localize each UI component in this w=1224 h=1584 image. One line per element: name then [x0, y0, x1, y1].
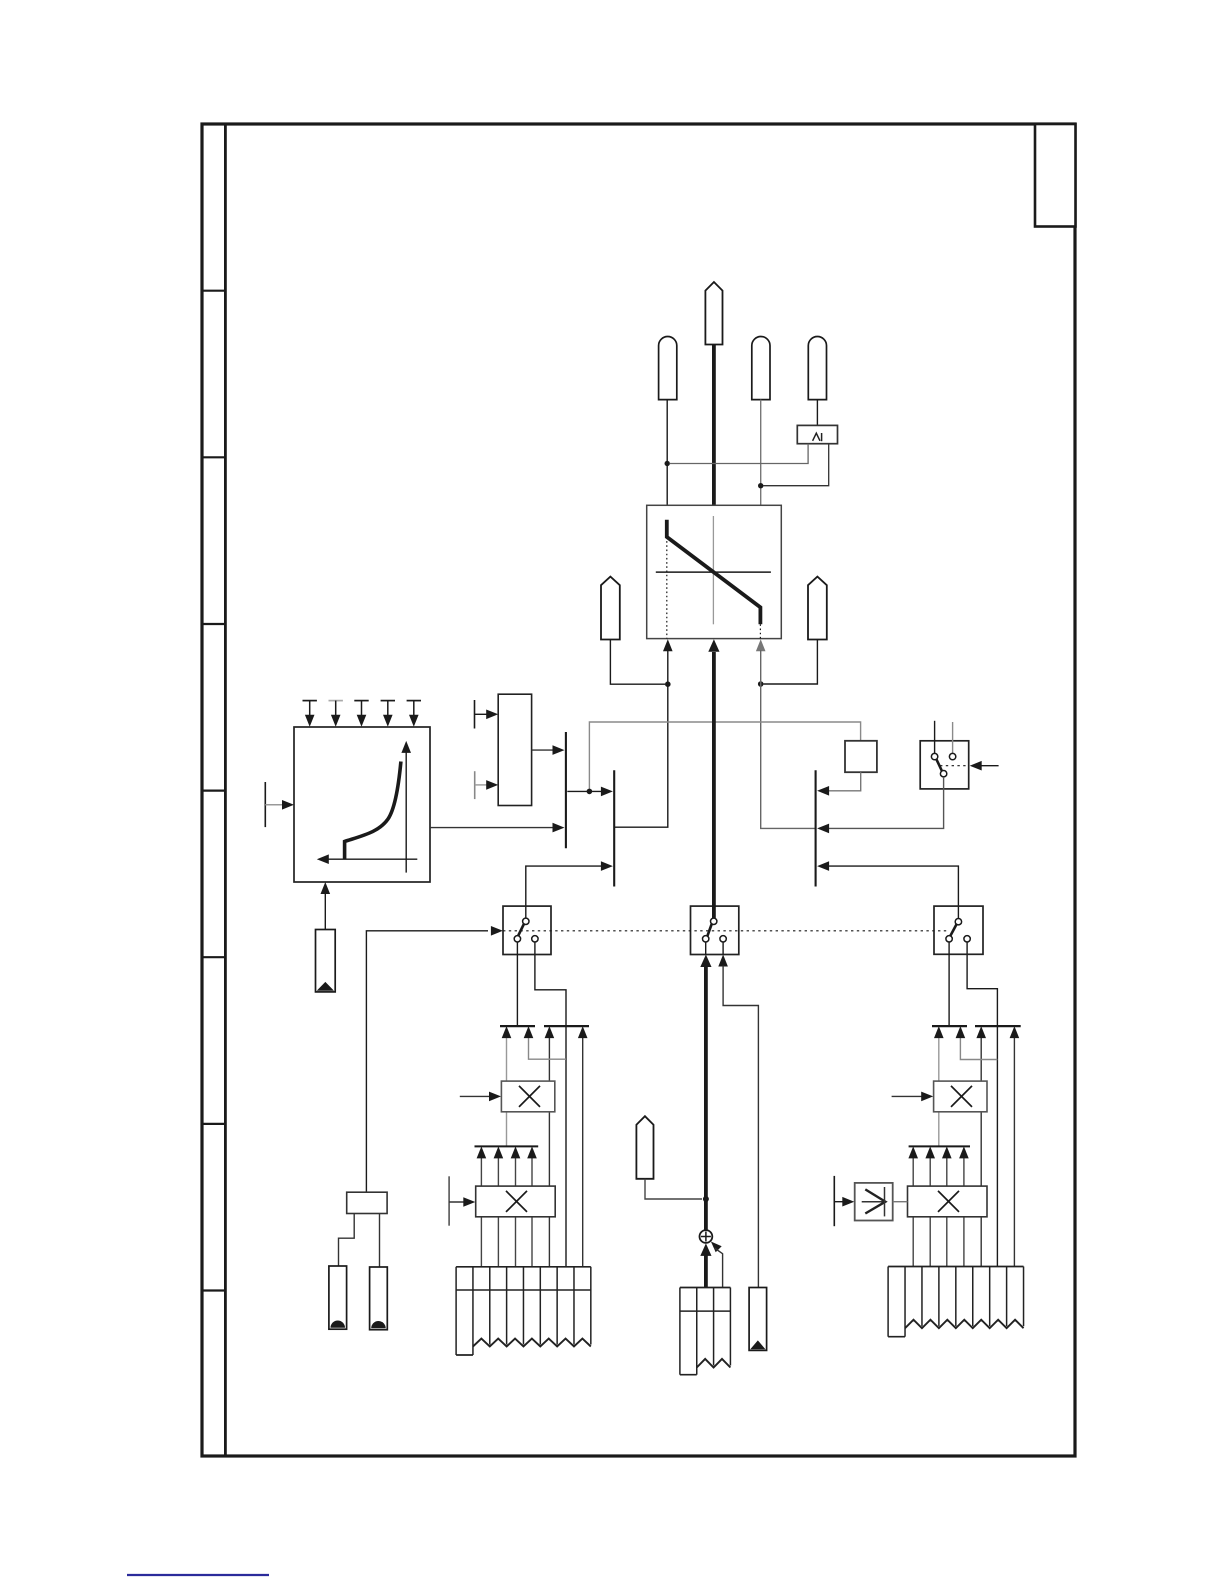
wire P2 to limiter box top [666, 400, 668, 506]
junction bar T4 [975, 1025, 1021, 1027]
wire M4 through-line 2 [929, 1158, 931, 1267]
wire S1 pole-b drop column [535, 942, 566, 1267]
S2 pole stub b [722, 942, 724, 955]
block U4 (tall rect) [498, 694, 531, 805]
connector P7b (triangle tag) [316, 930, 336, 992]
wire U2 out2 to node J2 [763, 444, 829, 486]
U3 top input arrow 5 [407, 700, 421, 702]
memory stack ST2 (middle) [679, 1288, 681, 1375]
limit block U5 (arrow-into-wall symbol) [855, 1183, 893, 1221]
off-page connector P2 (rounded top) [659, 337, 677, 400]
comparator U2 symbol [813, 433, 820, 441]
SW1 control dotted [940, 765, 969, 767]
wire M4 through-line 1 [912, 1158, 914, 1267]
S4 lever [950, 925, 956, 937]
adder A2 (circle-plus) [700, 1230, 713, 1243]
wire S1 pole-a to T1 [516, 942, 518, 1026]
U1 vertical axis [712, 516, 714, 624]
wire U2 out1 to node J1 [670, 444, 809, 464]
junction bar T1 [500, 1025, 535, 1027]
U5 input tick [833, 1176, 835, 1226]
wire U5 to M4 [893, 1201, 908, 1203]
main signal wire (P1 to limiter box) [712, 345, 716, 506]
wire P5 to node J3 [610, 640, 665, 685]
S2 lever [707, 924, 712, 937]
S2 pole stub a [705, 942, 707, 955]
switch S2 box [691, 906, 739, 954]
wire T2 arrow1 column [548, 1037, 550, 1267]
arrow into B3 from SW1 [817, 824, 829, 834]
off-page connector P6 (pointed) [808, 577, 827, 640]
U1 dotted drop left [666, 537, 668, 639]
wire M4 through-line 4 [963, 1158, 965, 1267]
SW1 control arrow [976, 765, 999, 767]
U3 top input arrow 2 [329, 700, 343, 702]
wire S4 pole-a to T3 [948, 942, 950, 1026]
frame left strip divider 5 [202, 956, 225, 958]
node J4 [758, 681, 764, 687]
U3 top input arrow 1 [303, 700, 317, 702]
wire M1 column (T1 arrow1 line) [506, 1037, 508, 1146]
connector P9 (dome tag) [329, 1266, 347, 1329]
wire T4 arrow1 column [980, 1037, 982, 1267]
frame left strip divider 1 [202, 290, 225, 292]
comparator U2 (≥ box) [797, 425, 837, 443]
S2 pole a [703, 936, 709, 942]
wire net B2-to-U1 (left riser) [615, 650, 668, 827]
U3 left input tick [264, 782, 266, 827]
S4 contact top [955, 919, 961, 925]
junction bar B2 [613, 770, 615, 886]
block K1 (control latch) [347, 1192, 387, 1213]
M1 input wire [460, 1095, 492, 1097]
junction bar T2 [544, 1025, 589, 1027]
main wire adder to S2 (arrow) [700, 955, 711, 968]
wire M2 through-line 1 [480, 1158, 482, 1267]
junction bar K2 (below M1) [475, 1145, 539, 1147]
SW1 stub wire a [934, 721, 936, 754]
multiplier M4 [908, 1186, 988, 1217]
wire M2 through-line 3 [515, 1158, 517, 1267]
wire M2 through-line 2 [497, 1158, 499, 1267]
U4 input tick 2 [474, 771, 476, 799]
wire A1 output to bar B3 [819, 772, 861, 791]
switch S1 box [503, 906, 551, 954]
S4 pole a [946, 936, 952, 942]
wire M2 through-line 4 [531, 1158, 533, 1267]
U4 input tick 1 [474, 700, 476, 729]
S2 contact top [711, 918, 717, 924]
frame left strip divider 7 [202, 1289, 225, 1291]
junction bar B1 [565, 732, 567, 848]
off-page connector P3 (rounded top) [752, 337, 770, 400]
frame left strip divider 3 [202, 623, 225, 625]
arrow into U1 bottom-center (main) [708, 639, 719, 652]
arrow into U1 bottom-left [663, 639, 673, 651]
wire T3 arrow2 jog [960, 1037, 997, 1060]
junction bar T3 [932, 1025, 967, 1027]
U3 top input arrow 4 [381, 700, 395, 702]
S4 pole b [964, 936, 970, 942]
S1 contact top [523, 918, 529, 924]
off-page connector P4 (rounded top) [808, 337, 826, 400]
wire T2 arrow2 column [582, 1037, 584, 1267]
connector P10 (dome tag) [370, 1267, 388, 1330]
node J5 (gray bus joins) [587, 789, 593, 795]
arrow into B3 from A1 [817, 786, 829, 796]
U4 input wire 1 [475, 713, 491, 715]
SW1 stub wire b [952, 722, 954, 753]
node J2 (on P3 wire) [758, 483, 763, 488]
wire S2 pole-b to P8 [718, 955, 728, 967]
S1 pole a [514, 936, 520, 942]
wire P3 to limiter box top [760, 400, 762, 506]
wire stack col3 to adder (diagonal) [711, 1242, 722, 1253]
S1 lever [518, 924, 524, 937]
wire M4 through-line 3 [946, 1158, 948, 1267]
control wire from K1 to S1 [366, 931, 488, 1192]
off-page connector P1 (top, pointed) [705, 282, 722, 345]
frame corner tab [1035, 124, 1076, 227]
U3 top input arrow 3 [354, 700, 368, 702]
connector P8 (triangle tag) [749, 1288, 767, 1351]
multiplier M2 [476, 1186, 556, 1217]
wire K1 to P10 [379, 1214, 381, 1268]
S1 pole b [532, 936, 538, 942]
U3 x-axis [322, 858, 417, 860]
wire S4 pole-a riser to B3 [827, 866, 958, 919]
multiplier M3 [934, 1081, 987, 1112]
wire B1 out to bar B2 [567, 790, 604, 792]
junction bar B3 [815, 770, 817, 886]
limiter block U1 [647, 505, 782, 638]
wire P6 to node J4 [764, 640, 818, 685]
node J1 (on P2 wire) [665, 461, 670, 466]
U5 symbol [862, 1201, 884, 1203]
U3 curve [345, 762, 401, 860]
wire T4 arrow2 column [1013, 1037, 1015, 1267]
memory stack ST1 (left) [455, 1267, 457, 1355]
wire S2 pole-a riser to B2 [526, 866, 604, 918]
U3 left input wire [265, 804, 285, 806]
M2 input tick [448, 1176, 450, 1225]
frame inner left rule [224, 124, 227, 1456]
frame left strip divider 6 [202, 1123, 225, 1125]
wire P7 to node J6 [645, 1179, 702, 1199]
wire long gray bus [589, 722, 860, 790]
control dotted line S1-S2-S4 [503, 930, 948, 932]
U3 output wire to bar B1 [430, 827, 556, 829]
arrow into U1 bottom-right [756, 639, 766, 651]
SW1 lever [936, 758, 942, 772]
drawing frame outer border [202, 124, 1075, 1456]
U1 horizontal axis [656, 571, 771, 573]
multiplier M1 [501, 1081, 554, 1112]
U4 output wire to bar B1 [532, 749, 556, 751]
U3 bottom input arrow [321, 882, 331, 894]
wire net B3-to-U1 (right riser) [761, 650, 815, 828]
frame left strip divider 4 [202, 789, 225, 791]
M3 input wire [892, 1095, 925, 1097]
wire M3 column (T3 arrow1 line) [938, 1037, 940, 1146]
S2 pole b [720, 936, 726, 942]
main wire stack to adder [700, 1243, 711, 1256]
SW1 contact a [931, 753, 937, 759]
wire P4 to comparator [816, 400, 818, 426]
U1 limiter curve [667, 520, 761, 625]
wire K1 to P9 [339, 1214, 355, 1267]
function block U3 (gamma curve) [294, 727, 430, 882]
switch SW1 box [920, 741, 969, 789]
SW1 pole [940, 771, 946, 777]
U3 y-axis [405, 748, 407, 873]
M2 input wire [449, 1201, 466, 1203]
U4 input wire 2 [475, 784, 490, 786]
U1 dotted drop right [759, 624, 761, 638]
SW1 contact b [949, 753, 955, 759]
memory stack ST3 (right) [887, 1267, 889, 1337]
switch S4 box [934, 906, 983, 954]
U5 input wire [834, 1201, 846, 1203]
junction bar K3 (below M3) [909, 1145, 970, 1147]
off-page connector P7 (pointed) [636, 1116, 653, 1179]
wire SW1 out to bar B3 [819, 777, 944, 828]
wire T1 arrow2 jog [529, 1037, 567, 1059]
node J3 [665, 681, 671, 687]
wire S4 pole-b drop column [967, 942, 997, 1267]
node J6 (P7 joins main) [703, 1196, 709, 1202]
off-page connector P5 (pointed) [601, 577, 620, 640]
main wire U1 to S2 [712, 652, 716, 921]
frame left strip divider 2 [202, 456, 225, 458]
footer rule (blue) [127, 1574, 269, 1576]
block A1 (small box) [845, 741, 877, 772]
